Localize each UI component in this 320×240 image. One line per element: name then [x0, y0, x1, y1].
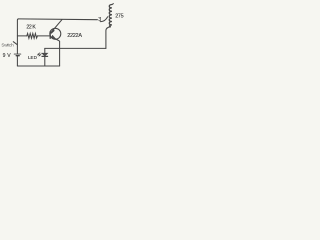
battery B1 positive plate [14, 53, 21, 55]
resistor R1 lead right [37, 35, 50, 37]
LED D1 cathode bar [42, 55, 48, 57]
transistor Q1 base bar [49, 32, 51, 39]
resistor R1 zigzag [27, 34, 38, 39]
wire emitter vertical [59, 42, 61, 66]
LED D1 triangle [42, 53, 48, 56]
svg-text:275: 275 [115, 14, 123, 20]
svg-text:9 V: 9 V [3, 53, 12, 59]
svg-text:Switch: Switch [1, 43, 14, 48]
transistor Q1 collector lead [51, 20, 62, 33]
inductor L1 coil loops [109, 5, 112, 27]
wire left rail [17, 19, 18, 54]
transistor Q1 emitter arrowhead [52, 35, 55, 38]
switch SW1 lever [13, 42, 17, 45]
transistor Q1 circle [50, 28, 61, 39]
battery B1 negative plate [16, 55, 19, 57]
LED D1 anode lead [44, 48, 46, 53]
inductor L1 top hook [112, 3, 113, 6]
svg-text:2222A: 2222A [67, 33, 82, 39]
svg-text:3: 3 [98, 17, 101, 23]
svg-text:22 K: 22 K [26, 24, 36, 30]
LED D1 emission arrow 2 [38, 53, 40, 55]
LED D1 emission arrow 1 [39, 54, 41, 56]
wire bottom rail [17, 65, 59, 67]
wire mid rail [45, 47, 106, 49]
transistor Q1 emitter lead [51, 37, 60, 42]
wire battery to bottom rail [16, 56, 18, 66]
LED D1 cathode lead [44, 57, 46, 66]
svg-text:LED: LED [28, 55, 38, 60]
inductor L1 bottom lead [106, 27, 111, 49]
resistor R1 lead left [17, 35, 26, 37]
wire tap curve to coil [100, 17, 108, 22]
wire top rail [19, 18, 98, 21]
transistor Q1 collector junction ink [51, 31, 54, 33]
